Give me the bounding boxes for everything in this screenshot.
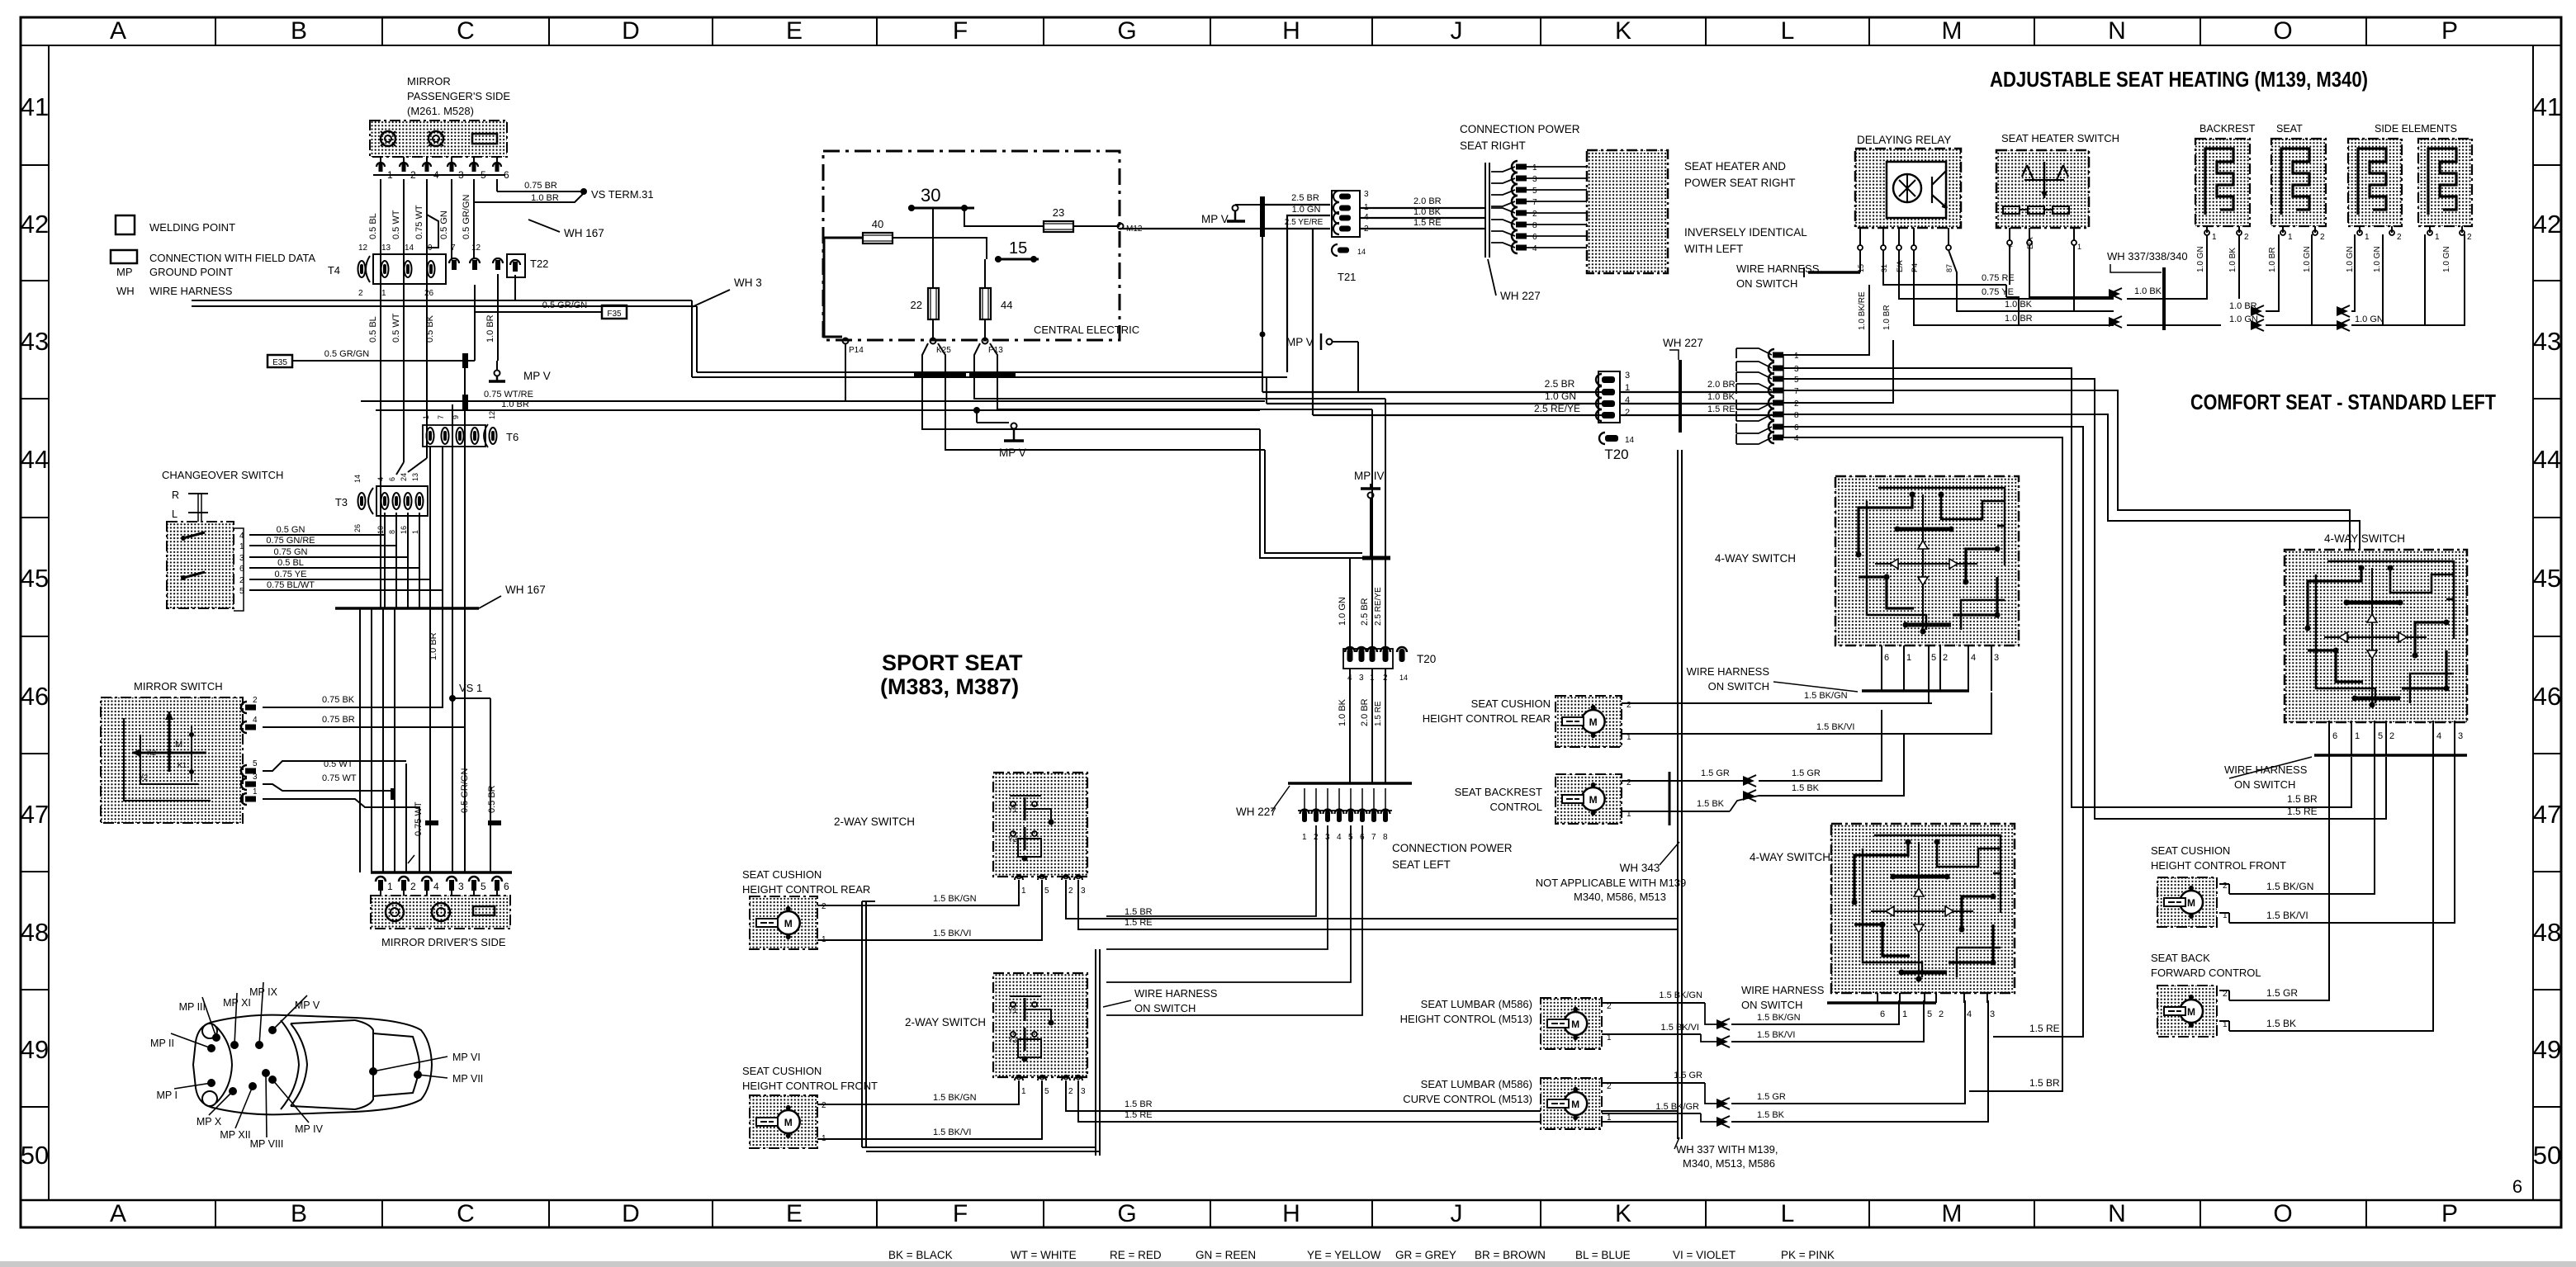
svg-text:2: 2: [2389, 731, 2394, 741]
svg-text:3: 3: [1994, 653, 1999, 663]
svg-text:G: G: [1117, 1200, 1136, 1227]
svg-text:POWER SEAT RIGHT: POWER SEAT RIGHT: [1684, 177, 1796, 189]
connector T6: [423, 425, 485, 447]
svg-text:0.5 BR: 0.5 BR: [487, 785, 497, 813]
svg-text:1: 1: [1794, 352, 1799, 361]
svg-text:SEAT LUMBAR (M586): SEAT LUMBAR (M586): [1421, 1078, 1532, 1090]
svg-text:1.5 RE: 1.5 RE: [2287, 806, 2318, 817]
svg-text:47: 47: [21, 800, 49, 829]
central electric box: [823, 151, 1120, 340]
svg-text:SEAT LUMBAR (M586): SEAT LUMBAR (M586): [1421, 998, 1532, 1010]
svg-text:0.75 BL/WT: 0.75 BL/WT: [267, 580, 315, 590]
wires 0.75 RE / 0.75 YE / 1.0 BK / 1.0 BR: [1883, 250, 2006, 285]
svg-text:6: 6: [388, 477, 396, 481]
svg-text:3: 3: [1625, 371, 1630, 381]
connector T4: [358, 261, 366, 277]
svg-text:2: 2: [2223, 882, 2228, 891]
wires 1.0 BK/RE and 1.0 BR up to relay: [1783, 285, 1869, 355]
svg-text:MP VIII: MP VIII: [250, 1138, 284, 1150]
svg-text:6: 6: [1794, 423, 1799, 433]
svg-text:GROUND POINT: GROUND POINT: [149, 266, 233, 278]
svg-text:1.0 BR: 1.0 BR: [485, 314, 495, 343]
svg-text:4: 4: [1794, 434, 1799, 443]
svg-text:2: 2: [1627, 778, 1631, 787]
svg-text:1: 1: [1021, 886, 1026, 896]
svg-text:1.5 BK: 1.5 BK: [1757, 1110, 1785, 1120]
svg-text:1.5 BK/GN: 1.5 BK/GN: [1659, 990, 1702, 1000]
svg-text:0.75 WT: 0.75 WT: [322, 773, 357, 783]
svg-text:30: 30: [921, 185, 940, 206]
svg-text:1.5 BR: 1.5 BR: [2029, 1077, 2060, 1089]
svg-text:1.5 BK/VI: 1.5 BK/VI: [933, 929, 971, 938]
svg-text:WH: WH: [116, 285, 135, 297]
svg-text:M340, M513, M586: M340, M513, M586: [1683, 1157, 1775, 1170]
welding bars under K25/P13: [914, 372, 966, 377]
mirror switch pins and wires 0.75 BK / 0.75 BR / 0.5 WT / 0.75 WT: [241, 702, 247, 713]
svg-text:12: 12: [488, 411, 496, 419]
svg-text:42: 42: [2533, 210, 2561, 239]
wires 1.5 BK/GN and 1.5 BK/VI (front): [817, 1080, 1019, 1104]
svg-text:3: 3: [2458, 731, 2463, 741]
svg-text:1: 1: [1607, 1113, 1612, 1123]
svg-text:T3: T3: [335, 496, 348, 508]
svg-text:WH 167: WH 167: [564, 227, 604, 239]
svg-text:0.75 WT: 0.75 WT: [414, 801, 424, 836]
svg-text:WH 227: WH 227: [1500, 290, 1541, 302]
svg-text:1.5 GR: 1.5 GR: [1701, 768, 1730, 778]
svg-text:7: 7: [1532, 198, 1537, 207]
svg-text:14: 14: [1357, 248, 1366, 256]
svg-text:41: 41: [21, 92, 49, 121]
svg-text:O: O: [2273, 17, 2292, 45]
svg-text:T20: T20: [1604, 447, 1628, 462]
svg-text:1: 1: [1532, 163, 1537, 173]
svg-text:5: 5: [481, 881, 486, 892]
inline connectors and wires 1.0 BK / 1.0 BR / 1.0 GN: [2109, 289, 2120, 299]
svg-text:1.5 BR: 1.5 BR: [1125, 907, 1153, 917]
svg-text:BK = BLACK: BK = BLACK: [888, 1249, 953, 1261]
wires 1.0 BK / 2.0 BR / 1.5 RE: [1349, 669, 1351, 783]
svg-text:2: 2: [358, 289, 363, 298]
svg-text:Y1: Y1: [1008, 806, 1017, 814]
svg-text:H: H: [1282, 17, 1300, 45]
legend: connection with field data symbol: [111, 250, 137, 263]
vertical double wire run E47-50: [861, 901, 863, 1147]
svg-text:ON SWITCH: ON SWITCH: [1708, 680, 1769, 693]
svg-text:1.5 BK: 1.5 BK: [1697, 799, 1725, 809]
svg-text:1.0 BK: 1.0 BK: [1413, 207, 1442, 217]
svg-text:WIRE HARNESS: WIRE HARNESS: [149, 285, 233, 297]
svg-text:0.5 GN: 0.5 GN: [439, 210, 449, 239]
mirror passenger side connector pins 1 2 4 3 5 6: [380, 157, 381, 163]
svg-text:WT = WHITE: WT = WHITE: [1011, 1249, 1077, 1261]
svg-text:M: M: [1942, 17, 1963, 45]
svg-text:1.0 GN: 1.0 GN: [2355, 314, 2384, 324]
svg-text:1: 1: [2212, 233, 2217, 242]
svg-text:1.5 BK/GN: 1.5 BK/GN: [933, 894, 977, 904]
svg-text:2.5 BR: 2.5 BR: [1545, 378, 1575, 390]
svg-text:43: 43: [2533, 327, 2561, 356]
svg-text:0.5 WT: 0.5 WT: [391, 313, 401, 343]
svg-text:0.75 GN/RE: 0.75 GN/RE: [266, 536, 315, 546]
svg-text:VI = VIOLET: VI = VIOLET: [1673, 1249, 1735, 1261]
svg-text:T21: T21: [1338, 271, 1356, 283]
svg-text:2.0 BR: 2.0 BR: [1707, 380, 1735, 390]
svg-text:4: 4: [1967, 1009, 1972, 1019]
svg-text:2: 2: [1939, 1009, 1944, 1019]
svg-text:MP V: MP V: [295, 1000, 320, 1011]
connection F35 with wire 0.5 GR/GN: [602, 305, 627, 319]
svg-text:CONNECTION POWER: CONNECTION POWER: [1392, 842, 1513, 854]
svg-text:M: M: [175, 740, 182, 749]
svg-text:5: 5: [1927, 1009, 1932, 1019]
svg-text:SEAT LEFT: SEAT LEFT: [1392, 858, 1451, 871]
svg-text:1: 1: [422, 415, 430, 419]
svg-text:CONTROL: CONTROL: [1489, 801, 1542, 813]
svg-text:PASSENGER'S SIDE: PASSENGER'S SIDE: [407, 90, 510, 102]
4-way switch M48 pins 6 1 5 2 4 3 and harness bar: [1877, 993, 1878, 1003]
svg-text:CHANGEOVER SWITCH: CHANGEOVER SWITCH: [162, 469, 283, 481]
svg-text:CENTRAL ELECTRIC: CENTRAL ELECTRIC: [1034, 324, 1139, 336]
svg-text:42: 42: [21, 210, 49, 239]
svg-text:MIRROR: MIRROR: [407, 75, 451, 87]
svg-text:ON SWITCH: ON SWITCH: [2234, 778, 2295, 791]
svg-text:16: 16: [400, 526, 408, 534]
svg-text:87: 87: [1945, 264, 1953, 272]
connector T20: [1596, 374, 1602, 385]
svg-text:1: 1: [2288, 233, 2293, 242]
svg-text:2: 2: [1532, 210, 1537, 219]
svg-text:2.5 RE/YE: 2.5 RE/YE: [1374, 587, 1383, 626]
svg-text:MP X: MP X: [197, 1116, 222, 1128]
svg-text:L: L: [172, 508, 178, 520]
svg-text:1.0 GN: 1.0 GN: [2196, 246, 2205, 272]
svg-text:E35: E35: [272, 358, 287, 367]
svg-text:1.0 BK: 1.0 BK: [1338, 698, 1347, 726]
svg-text:WIRE HARNESS: WIRE HARNESS: [1741, 984, 1825, 996]
svg-text:L: L: [1781, 17, 1795, 45]
svg-text:1.5 BK: 1.5 BK: [2266, 1018, 2296, 1029]
svg-text:2: 2: [1068, 886, 1073, 896]
mirror driver side harness bar and pins: [371, 871, 512, 874]
svg-text:2: 2: [1625, 408, 1630, 418]
svg-text:1.5 RE: 1.5 RE: [1413, 218, 1442, 228]
2-way switch (lower): [993, 973, 1087, 1077]
svg-text:1.5 BK/GN: 1.5 BK/GN: [933, 1093, 977, 1103]
svg-text:23: 23: [1053, 206, 1064, 219]
svg-text:MP IV: MP IV: [295, 1123, 323, 1135]
svg-text:24: 24: [400, 473, 408, 481]
svg-text:1: 1: [1902, 1009, 1907, 1019]
svg-text:MP V: MP V: [999, 447, 1026, 459]
fuse 22: [928, 288, 939, 319]
svg-text:MP XII: MP XII: [220, 1129, 250, 1141]
wire harness WH 343 / WH 337 bar: [1677, 450, 1679, 1139]
wire harness WH 167 callout: [528, 220, 560, 232]
svg-text:B: B: [291, 1200, 307, 1227]
svg-text:5: 5: [1532, 187, 1537, 196]
svg-text:Y2: Y2: [1008, 835, 1017, 844]
svg-text:MP V: MP V: [1286, 336, 1314, 348]
svg-text:1.5 GR: 1.5 GR: [2266, 987, 2298, 999]
svg-text:7: 7: [1794, 387, 1799, 396]
svg-text:44: 44: [21, 445, 49, 474]
grid column ticks: [215, 17, 216, 45]
wire 0.75 BR to VS TERM.31: [497, 191, 582, 192]
svg-text:ON SWITCH: ON SWITCH: [1134, 1002, 1196, 1014]
svg-text:MIRROR SWITCH: MIRROR SWITCH: [134, 680, 223, 693]
svg-text:Y2: Y2: [1008, 1036, 1017, 1044]
svg-text:4: 4: [376, 477, 385, 481]
wires from P13: [974, 343, 1385, 399]
svg-text:14: 14: [353, 475, 362, 483]
svg-text:1.5 BK/VI: 1.5 BK/VI: [1757, 1030, 1795, 1040]
svg-text:12: 12: [471, 243, 481, 253]
svg-text:1.5 BK/GN: 1.5 BK/GN: [2266, 881, 2313, 892]
wires 2.0 BR / 1.0 BK / 1.5 RE to seat connector: [1620, 391, 1778, 393]
connector pins 7 / 12 (T22 side): [449, 258, 459, 263]
svg-text:40: 40: [872, 218, 883, 230]
svg-text:0.5 GN: 0.5 GN: [277, 525, 305, 535]
svg-text:6: 6: [2332, 731, 2337, 741]
connector pins 1 3 5 7 2 8 6 4: [1512, 161, 1518, 173]
svg-text:DELAYING RELAY: DELAYING RELAY: [1857, 134, 1951, 146]
svg-text:6: 6: [1880, 1009, 1885, 1019]
svg-text:M: M: [2187, 1006, 2195, 1018]
svg-text:SEAT BACKREST: SEAT BACKREST: [1455, 786, 1542, 798]
svg-text:0.75 BR: 0.75 BR: [322, 715, 355, 725]
svg-text:1: 1: [387, 881, 393, 892]
svg-text:K: K: [1615, 17, 1631, 45]
svg-text:2: 2: [2244, 233, 2249, 242]
svg-text:T20: T20: [1417, 653, 1436, 665]
wire harness WH 227 bar: [1485, 163, 1486, 258]
svg-text:ADJUSTABLE SEAT HEATING (M139: ADJUSTABLE SEAT HEATING (M139, M340): [1990, 67, 2368, 92]
svg-text:8: 8: [1794, 411, 1799, 420]
svg-text:E: E: [786, 17, 803, 45]
svg-text:6: 6: [1532, 233, 1537, 242]
4-way switch M45 pins 6 1 5 2 4 3 and harness bar: [1881, 645, 1882, 691]
svg-text:13: 13: [381, 243, 391, 253]
wires 1.5 BK/GN and 1.5 BK/VI (rear): [817, 880, 1019, 905]
svg-text:A: A: [110, 17, 126, 45]
svg-text:50: 50: [21, 1141, 49, 1170]
svg-text:H: H: [1282, 1200, 1300, 1227]
svg-text:K2: K2: [147, 749, 156, 757]
svg-text:HEIGHT CONTROL FRONT: HEIGHT CONTROL FRONT: [742, 1080, 878, 1092]
svg-text:MP VI: MP VI: [452, 1052, 481, 1063]
svg-text:0.5 GR/GN: 0.5 GR/GN: [324, 349, 369, 359]
svg-text:SEAT CUSHION: SEAT CUSHION: [1471, 697, 1551, 710]
svg-text:1.5 RE: 1.5 RE: [1374, 701, 1383, 726]
svg-text:3: 3: [458, 881, 464, 892]
4-way switch (M45): [1835, 476, 2019, 645]
svg-text:15: 15: [1009, 239, 1027, 258]
svg-text:2: 2: [2397, 233, 2402, 242]
svg-text:CONNECTION POWER: CONNECTION POWER: [1460, 123, 1580, 135]
svg-text:K1: K1: [178, 761, 187, 769]
svg-text:WIRE HARNESS: WIRE HARNESS: [2224, 764, 2308, 776]
connection power seat left 8-pin connector: [1300, 810, 1309, 814]
svg-text:T4: T4: [328, 264, 340, 277]
relay pins 15 31 E/A P4 87: [1859, 228, 1861, 246]
nested wire elbows H44: [1260, 429, 1390, 558]
svg-text:2: 2: [253, 696, 258, 705]
svg-text:1: 1: [2365, 233, 2370, 242]
svg-text:5: 5: [253, 759, 258, 768]
svg-text:P14: P14: [849, 346, 864, 355]
svg-text:N: N: [2108, 1200, 2126, 1227]
svg-text:CONNECTION WITH FIELD DATA: CONNECTION WITH FIELD DATA: [149, 252, 315, 264]
svg-text:MP IV: MP IV: [1354, 470, 1385, 482]
svg-text:45: 45: [2533, 564, 2561, 593]
svg-text:D: D: [622, 17, 640, 45]
svg-text:1.0 BK: 1.0 BK: [2134, 286, 2162, 296]
svg-text:A: A: [110, 1200, 126, 1227]
svg-text:4-WAY SWITCH: 4-WAY SWITCH: [1750, 851, 1830, 863]
svg-text:0.75 BR: 0.75 BR: [524, 181, 557, 191]
svg-text:HEIGHT CONTROL FRONT: HEIGHT CONTROL FRONT: [2151, 859, 2286, 872]
svg-text:MP III: MP III: [179, 1001, 206, 1013]
4-way switch (M48): [1831, 824, 2015, 993]
svg-text:1: 1: [381, 289, 386, 298]
svg-text:47: 47: [2533, 800, 2561, 829]
svg-text:M: M: [784, 918, 793, 929]
svg-text:8: 8: [1532, 221, 1537, 230]
svg-text:WITH LEFT: WITH LEFT: [1684, 243, 1743, 255]
svg-text:1.0 BK: 1.0 BK: [2228, 248, 2237, 272]
svg-text:MP: MP: [116, 266, 133, 278]
svg-text:2.0 BR: 2.0 BR: [1360, 698, 1370, 726]
svg-text:7: 7: [1371, 833, 1376, 842]
svg-text:1.0 BR: 1.0 BR: [1882, 305, 1892, 330]
svg-text:14: 14: [405, 243, 414, 253]
svg-text:M: M: [1589, 716, 1598, 728]
svg-text:4: 4: [2436, 731, 2441, 741]
svg-text:E: E: [786, 1200, 803, 1227]
svg-text:MP I: MP I: [157, 1090, 178, 1101]
2-way switch (upper): [993, 773, 1087, 877]
car top view with ground point locations: [193, 1015, 432, 1115]
svg-text:1.0 GN: 1.0 GN: [2303, 246, 2312, 272]
svg-text:1.5 BK/GN: 1.5 BK/GN: [1804, 691, 1848, 701]
svg-text:1.5 RE: 1.5 RE: [2029, 1023, 2060, 1034]
svg-text:2.5 YE/RE: 2.5 YE/RE: [1285, 218, 1324, 227]
svg-text:N: N: [2108, 17, 2126, 45]
svg-text:5: 5: [1044, 1087, 1049, 1096]
svg-text:SPORT SEAT: SPORT SEAT: [882, 650, 1023, 675]
svg-text:ON SWITCH: ON SWITCH: [1741, 999, 1802, 1011]
svg-text:F35: F35: [607, 310, 622, 319]
svg-text:2: 2: [822, 902, 826, 911]
svg-text:MP V: MP V: [1201, 213, 1229, 225]
svg-text:M: M: [2187, 897, 2195, 909]
svg-text:R: R: [172, 489, 179, 501]
svg-text:RE = RED: RE = RED: [1110, 1249, 1162, 1261]
svg-text:3: 3: [1081, 1087, 1086, 1096]
svg-text:5: 5: [1794, 376, 1799, 385]
svg-text:WH 167: WH 167: [505, 584, 546, 596]
fuse 44: [980, 288, 991, 319]
svg-text:MP V: MP V: [523, 370, 551, 382]
svg-text:10: 10: [376, 526, 385, 534]
svg-text:2.5 RE/YE: 2.5 RE/YE: [1534, 403, 1580, 414]
svg-text:GN = REEN: GN = REEN: [1196, 1249, 1256, 1261]
connector T20 (sport seat) pins 4 3 1 2 14: [1345, 647, 1355, 652]
svg-text:1: 1: [1021, 1087, 1026, 1096]
svg-text:YE = YELLOW: YE = YELLOW: [1307, 1249, 1381, 1261]
svg-text:4: 4: [433, 881, 439, 892]
svg-text:SEAT BACK: SEAT BACK: [2151, 952, 2210, 964]
wire jog 0.75 WT: [427, 179, 438, 248]
svg-text:14: 14: [1625, 436, 1635, 445]
svg-text:2: 2: [2320, 233, 2325, 242]
svg-text:CURVE CONTROL (M513): CURVE CONTROL (M513): [1403, 1093, 1532, 1105]
svg-text:0.75 BK: 0.75 BK: [322, 695, 355, 705]
wires 0.5 BL / 0.5 WT / 0.75 WT / 0.5 GN from mirror: [380, 179, 381, 279]
svg-text:12: 12: [358, 243, 368, 253]
wire from P14: [845, 343, 846, 401]
mirror driver side unit: [371, 896, 510, 929]
vertical wire bundle column C: [380, 279, 381, 608]
svg-text:44: 44: [1001, 299, 1012, 311]
svg-text:1.0 BK: 1.0 BK: [1707, 392, 1735, 402]
fuse 23 and terminal M12: [1044, 221, 1073, 232]
svg-text:T6: T6: [506, 431, 519, 443]
svg-text:C: C: [457, 17, 475, 45]
svg-text:1: 1: [2077, 243, 2081, 251]
svg-text:J: J: [1451, 1200, 1463, 1227]
svg-text:SEAT CUSHION: SEAT CUSHION: [742, 1065, 822, 1077]
svg-text:M: M: [1571, 1019, 1579, 1030]
svg-text:HEIGHT CONTROL REAR: HEIGHT CONTROL REAR: [1423, 712, 1551, 725]
svg-text:J: J: [1451, 17, 1463, 45]
connector T22: [507, 254, 525, 277]
svg-text:MP II: MP II: [150, 1038, 174, 1049]
svg-text:WH 337/338/340: WH 337/338/340: [2107, 250, 2188, 262]
svg-text:SEAT HEATER SWITCH: SEAT HEATER SWITCH: [2001, 132, 2119, 144]
svg-text:F: F: [953, 1200, 968, 1227]
wires from 4-way switch O45 to right motors: [2229, 755, 2329, 1000]
svg-text:1: 1: [2355, 731, 2360, 741]
wire harness WH 227 bar (sport seat): [1288, 782, 1412, 785]
svg-text:43: 43: [21, 327, 49, 356]
svg-text:1.0 GN: 1.0 GN: [2373, 246, 2382, 272]
svg-text:NOT APPLICABLE WITH M139: NOT APPLICABLE WITH M139: [1536, 877, 1687, 889]
svg-text:0.75 GN: 0.75 GN: [274, 547, 308, 557]
svg-text:4: 4: [1532, 244, 1537, 253]
svg-text:BL = BLUE: BL = BLUE: [1575, 1249, 1631, 1261]
svg-text:1.5 GR: 1.5 GR: [1792, 768, 1821, 778]
4-way switch O45 pins 6 1 5 2 4 3 and harness bar: [2328, 721, 2330, 755]
seat heater and power seat right unit: [1587, 150, 1668, 273]
wires 2.0 BR / 1.0 BK / 1.5 RE: [1360, 207, 1485, 209]
nested wire runs to comfort seat right side: [1783, 368, 2351, 807]
svg-text:MIRROR DRIVER'S SIDE: MIRROR DRIVER'S SIDE: [381, 936, 506, 948]
legend: welding point symbol: [116, 215, 135, 234]
svg-text:1.5 BK/VI: 1.5 BK/VI: [1816, 722, 1854, 732]
wire harness on switch bar (sport seat): [1095, 949, 1096, 1156]
svg-text:COMFORT SEAT - STANDARD LEFT: COMFORT SEAT - STANDARD LEFT: [2190, 390, 2496, 414]
svg-text:SEAT: SEAT: [2276, 123, 2303, 135]
connection E35 with wire 0.5 GR/GN: [268, 355, 292, 367]
svg-text:M: M: [1571, 1099, 1579, 1110]
svg-text:1: 1: [1302, 833, 1307, 842]
svg-text:3: 3: [1081, 886, 1086, 896]
svg-text:46: 46: [21, 682, 49, 711]
svg-text:41: 41: [2533, 92, 2561, 121]
svg-text:4: 4: [1337, 833, 1342, 842]
